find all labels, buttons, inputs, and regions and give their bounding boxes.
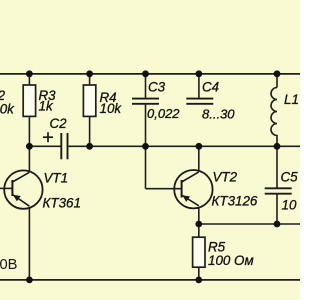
svg-text:200k: 200k: [0, 102, 15, 117]
svg-text:10k: 10k: [100, 101, 123, 116]
wire: bottom 0V rail: [0, 279, 300, 281]
svg-text:VT1: VT1: [44, 171, 69, 186]
svg-text:C3: C3: [148, 80, 166, 95]
svg-text:C4: C4: [202, 80, 219, 95]
svg-text:КТ361: КТ361: [43, 196, 81, 211]
svg-text:КТ3126: КТ3126: [212, 194, 258, 209]
wire: middle node rail left of C2: [29, 145, 61, 147]
svg-text:100 Ом: 100 Ом: [208, 253, 254, 268]
resistor R3: [23, 74, 35, 147]
svg-text:0,022: 0,022: [147, 106, 180, 121]
junction dots emitter node: [195, 221, 280, 228]
junction dots top rail: [26, 70, 280, 77]
capacitor C2: [61, 133, 67, 159]
svg-text:VT2: VT2: [213, 170, 238, 185]
svg-text:0В: 0В: [0, 257, 18, 273]
transistor VT1: [0, 146, 43, 280]
svg-text:10: 10: [282, 198, 297, 213]
svg-text:L1: L1: [284, 92, 299, 107]
capacitor C4: [186, 74, 213, 104]
svg-text:1k: 1k: [39, 98, 54, 113]
transistor VT2: [174, 146, 212, 224]
junction dots middle node: [26, 143, 280, 150]
resistor R5: [193, 224, 205, 280]
svg-text:8...30: 8...30: [202, 106, 235, 121]
wire: VT2 base branch: [146, 146, 182, 188]
inductor L1: [271, 74, 277, 147]
resistor R4: [83, 74, 95, 147]
capacitor C3: [132, 74, 159, 147]
wire: top supply rail: [0, 73, 300, 75]
plus sign of C2: [43, 132, 53, 142]
wire: middle node rail right of C2: [68, 145, 300, 147]
capacitor C5: [265, 146, 292, 224]
svg-text:C5: C5: [281, 170, 299, 185]
wire: emitter node to right edge: [199, 223, 300, 225]
junction dots bottom rail: [26, 277, 202, 284]
svg-text:C2: C2: [50, 116, 68, 131]
